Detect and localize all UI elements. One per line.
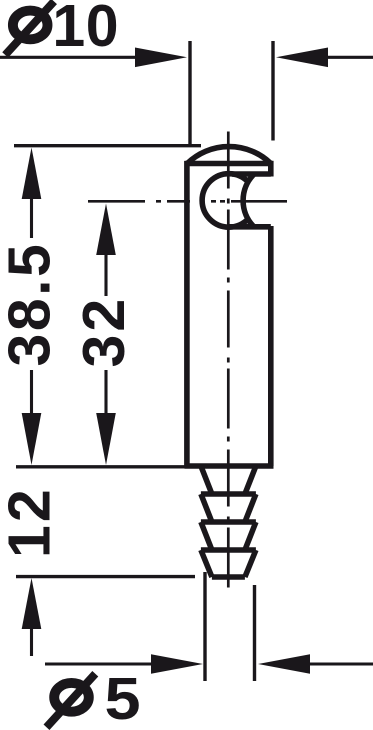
- dimension 12 bottom stem: [30, 627, 33, 656]
- dimension line Ø5 right segment: [309, 662, 373, 665]
- thread flank right 4: [245, 550, 256, 577]
- dimension line Ø10 right segment: [327, 56, 373, 59]
- svg-text:5: 5: [105, 667, 141, 730]
- thread flank left 4: [201, 550, 212, 577]
- bolt dome cap arc: [187, 147, 271, 164]
- bolt right edge lower segment: [268, 226, 274, 466]
- dimension label Ø5 diameter symbol slash: [47, 674, 96, 728]
- bolt body bottom line: [185, 463, 274, 469]
- extension line Ø5 right: [253, 585, 256, 681]
- svg-text:10: 10: [52, 0, 119, 59]
- ball head arc: [202, 174, 248, 228]
- extension line bottom shared (38.5/32/12): [16, 465, 186, 468]
- thread flank right 1: [245, 466, 256, 494]
- dimension 38.5 lower stem: [30, 370, 33, 413]
- extension line Ø10 left: [188, 41, 191, 146]
- extension line top of part (38.5): [14, 144, 201, 147]
- thread flank left 2: [201, 494, 212, 522]
- dimension 32 top arrowhead: [96, 204, 116, 256]
- thread crest bar 1: [201, 491, 256, 497]
- thread flank left 3: [201, 522, 212, 550]
- svg-text:38.5: 38.5: [0, 242, 63, 367]
- bolt right edge upper segment: [268, 161, 274, 177]
- extension line Ø5 left: [203, 572, 206, 681]
- dimension 38.5 upper stem: [30, 197, 33, 238]
- shoulder line above crescent: [232, 171, 271, 177]
- shoulder line below crescent: [229, 224, 271, 230]
- dimension 38.5 top arrowhead: [22, 148, 42, 200]
- vertical centerline of bolt: [227, 132, 230, 595]
- arrowhead Ø5 right: [258, 654, 310, 674]
- dimension label Ø10 diameter symbol ring: [13, 11, 48, 40]
- dimension 32 upper stem: [104, 253, 107, 296]
- crescent cam groove arc: [243, 174, 254, 227]
- horizontal centerline through ball (32 extension): [88, 200, 287, 203]
- extension line bottom of screw (12): [16, 575, 195, 578]
- svg-text:12: 12: [0, 486, 63, 558]
- dimension label Ø5: [54, 683, 89, 712]
- thread crest bar 3: [201, 547, 256, 553]
- dimension line Ø10 left segment: [0, 56, 137, 59]
- dimension 38.5 bottom arrowhead: [22, 413, 42, 465]
- bolt dome chord line: [185, 161, 274, 167]
- svg-text:32: 32: [71, 296, 137, 368]
- thread flank left 1: [201, 466, 212, 494]
- thread tip bar: [212, 574, 245, 580]
- thread flank right 3: [245, 522, 256, 550]
- dimension 32 lower stem: [104, 370, 107, 413]
- dimension label Ø10 diameter symbol slash: [5, 1, 54, 55]
- arrowhead Ø5 left: [151, 654, 203, 674]
- bolt left edge: [184, 161, 190, 466]
- arrowhead Ø10 left: [135, 48, 187, 68]
- thread crest bar 2: [201, 519, 256, 525]
- dimension 32 bottom arrowhead: [96, 413, 116, 465]
- extension line Ø10 right: [271, 41, 274, 141]
- thread flank right 2: [245, 494, 256, 522]
- dimension 12 bottom arrowhead (outside, pointing up): [22, 578, 42, 629]
- dimension line Ø5 left segment: [45, 662, 153, 665]
- arrowhead Ø10 right: [276, 48, 328, 68]
